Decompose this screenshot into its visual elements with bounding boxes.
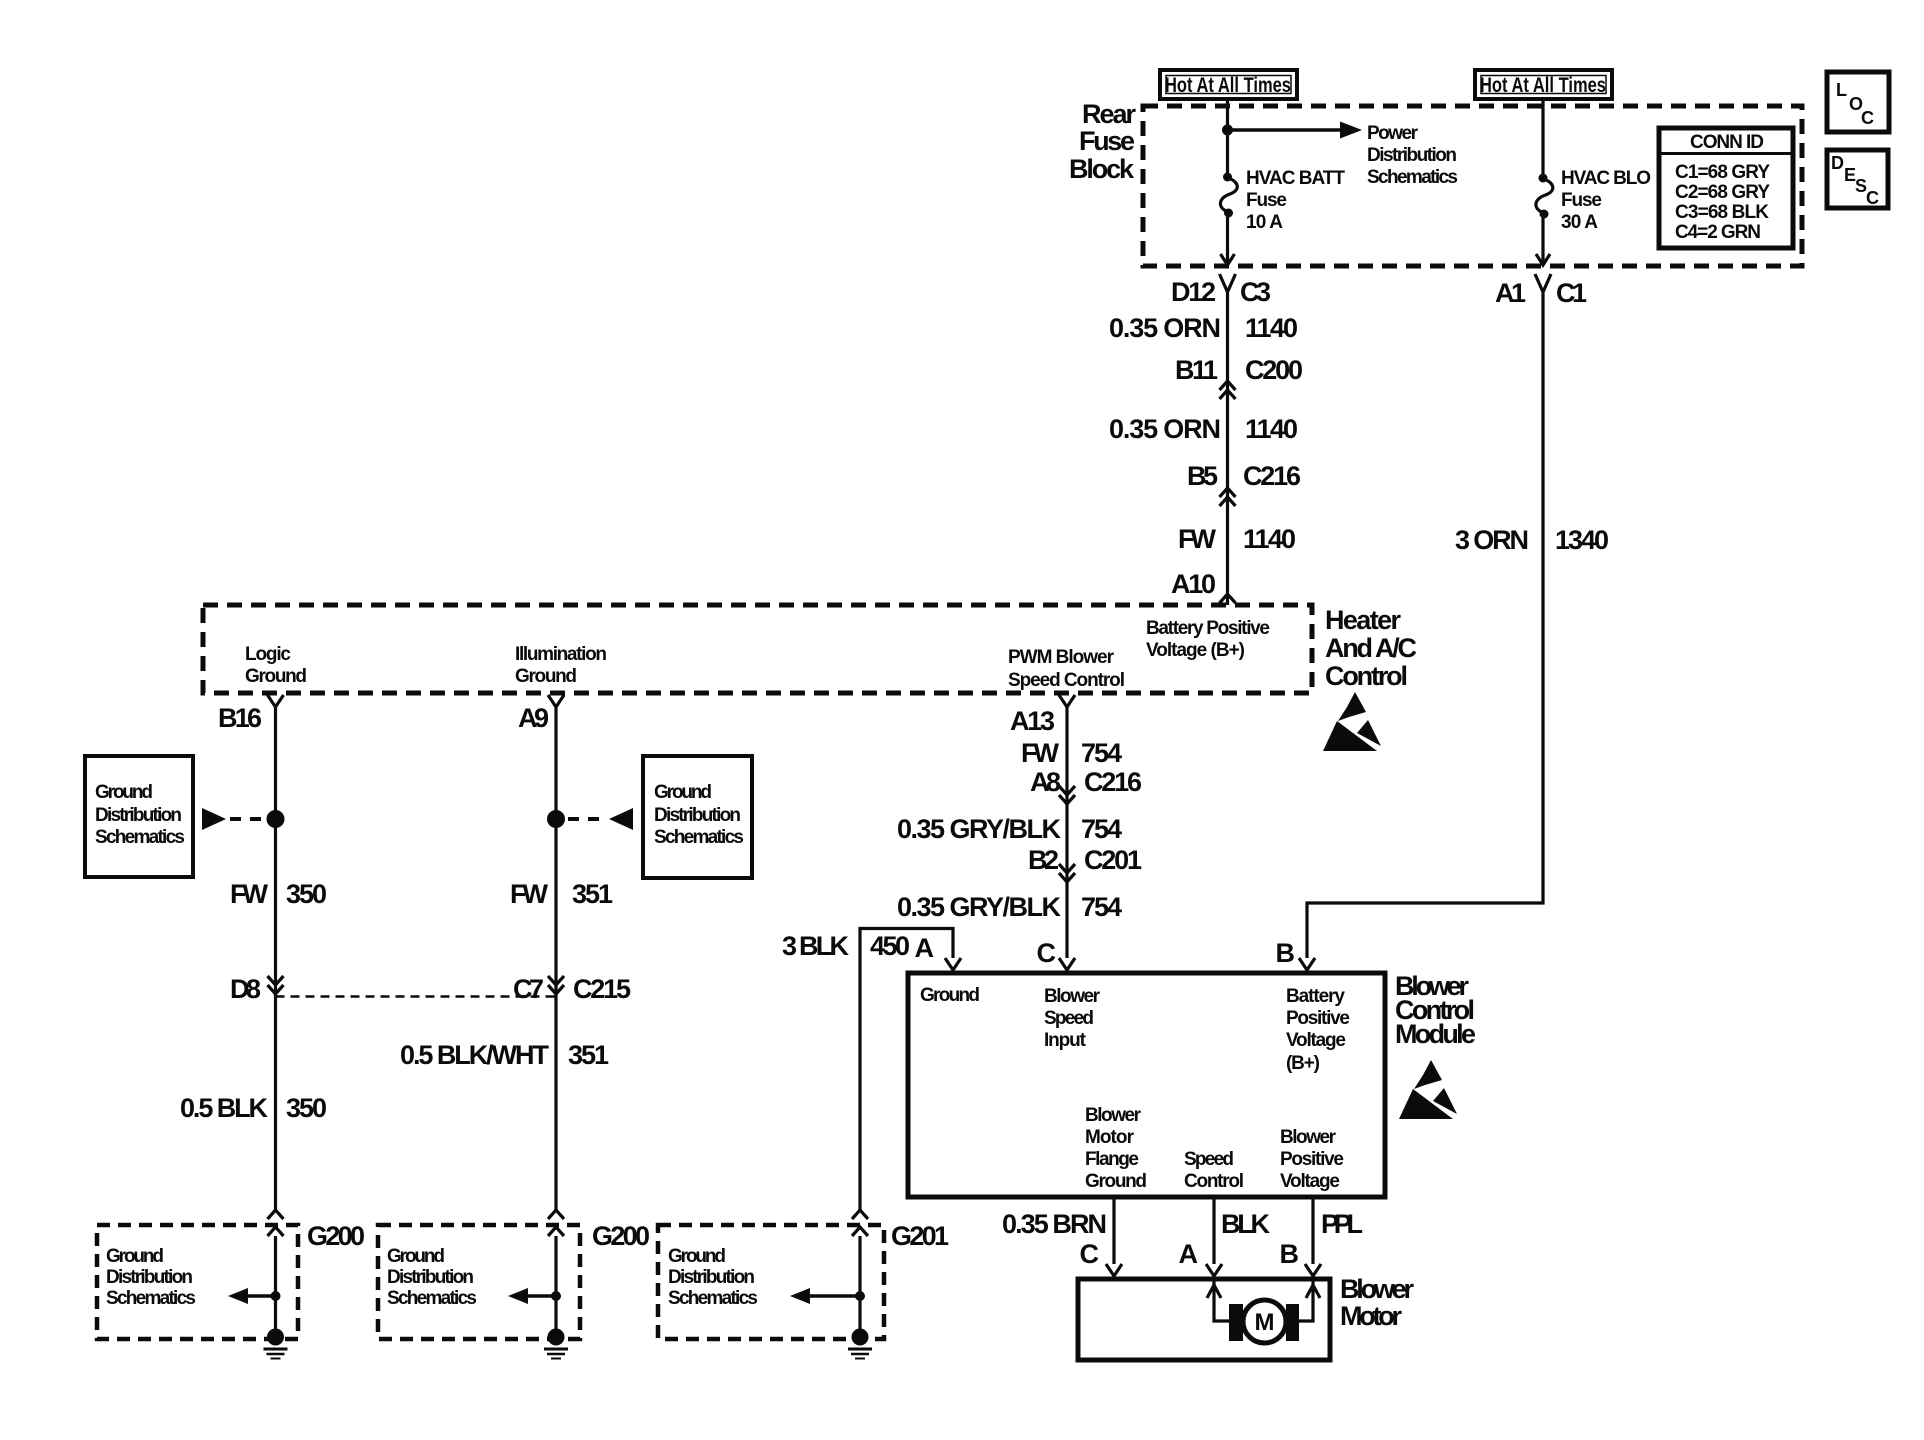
labels: D12 / C3 (1171, 277, 1271, 307)
svg-text:And A/C: And A/C (1325, 633, 1417, 663)
svg-text:450: 450 (870, 931, 910, 961)
svg-text:A1: A1 (1495, 278, 1526, 308)
label: 3 BLK | 450 (782, 931, 910, 961)
svg-text:FW: FW (510, 879, 549, 909)
label: Battery Positive Voltage (B+) (1286, 986, 1350, 1074)
labels: A1 / C1 (1495, 278, 1587, 308)
svg-text:Ground: Ground (387, 1246, 445, 1267)
svg-text:BLK: BLK (1221, 1209, 1271, 1239)
svg-text:Speed: Speed (1044, 1008, 1094, 1029)
svg-text:C1=68 GRY: C1=68 GRY (1675, 162, 1770, 183)
label: 0.5 BLK/WHT | 351 (400, 1040, 609, 1070)
svg-text:3 BLK: 3 BLK (782, 931, 850, 961)
svg-text:Battery: Battery (1286, 986, 1345, 1007)
svg-text:(B+): (B+) (1286, 1053, 1320, 1074)
svg-text:Ground: Ground (920, 985, 980, 1006)
label: Battery Positive Voltage (B+) (1146, 618, 1270, 661)
svg-text:Battery Positive: Battery Positive (1146, 618, 1270, 639)
svg-text:350: 350 (286, 879, 327, 909)
arrow to ground distribution schematics (box 1) (228, 1288, 274, 1304)
label: 0.35 BRN / C (1002, 1209, 1107, 1269)
ground symbol G201 (848, 1329, 872, 1359)
junction dot on A9 wire (547, 810, 565, 828)
connector A10 chevron (1220, 594, 1236, 603)
svg-text:Schematics: Schematics (95, 827, 185, 848)
svg-text:Distribution: Distribution (95, 805, 182, 826)
dashed connector line C215 (276, 995, 557, 998)
svg-text:M: M (1255, 1309, 1275, 1336)
svg-text:0.35 ORN: 0.35 ORN (1109, 313, 1221, 343)
svg-text:Positive: Positive (1286, 1008, 1350, 1029)
wire into ground G200 (274, 1236, 277, 1331)
svg-text:B11: B11 (1175, 355, 1218, 385)
svg-text:C201: C201 (1084, 845, 1142, 875)
svg-text:Ground: Ground (654, 782, 712, 803)
connector B Y symbol at motor (1305, 1264, 1321, 1279)
svg-text:G201: G201 (891, 1221, 949, 1251)
ESD symbol (heater control) (1323, 692, 1381, 751)
label: Blower Control Module (1395, 971, 1476, 1049)
motor M1 symbol (1229, 1300, 1299, 1343)
connector G200 chevrons (middle) (548, 1210, 564, 1236)
labels: B2 | C201 (1028, 845, 1142, 875)
arrow up (A) (1207, 1285, 1221, 1298)
ground distribution schematics dashed box 3 (658, 1225, 884, 1339)
DESC box (1827, 150, 1888, 208)
svg-text:Motor: Motor (1340, 1301, 1402, 1331)
wire into ground G200 (middle) (554, 1236, 557, 1331)
labels: B11 | C200 (1175, 355, 1303, 385)
LOC box (1827, 72, 1889, 132)
arrow to ground distribution schematics (box 2) (508, 1288, 554, 1304)
CONN ID table (1659, 128, 1793, 248)
svg-text:3 ORN: 3 ORN (1455, 525, 1529, 555)
svg-text:Ground: Ground (95, 782, 153, 803)
svg-text:351: 351 (572, 879, 613, 909)
heater and A/C control dashed box (203, 605, 1312, 693)
svg-text:Ground: Ground (668, 1246, 726, 1267)
svg-text:0.35 BRN: 0.35 BRN (1002, 1209, 1107, 1239)
fuse F1 HVAC BATT 10A (1220, 173, 1237, 218)
svg-text:Fuse: Fuse (1561, 190, 1602, 211)
arrowhead at block edge (C1) (1536, 254, 1550, 265)
ground distribution schematics box (left solid) (85, 756, 193, 877)
dashed arrow link to ground distribution schematics (middle) (568, 808, 633, 830)
svg-text:B5: B5 (1187, 461, 1218, 491)
svg-text:Ground: Ground (1085, 1171, 1147, 1192)
svg-text:Blower: Blower (1085, 1105, 1142, 1126)
label: Illumination Ground (515, 644, 607, 687)
junction dot at ground arrow (G201) (855, 1291, 865, 1301)
label: Blower Positive Voltage (1280, 1127, 1344, 1192)
svg-text:Schematics: Schematics (654, 827, 744, 848)
wire: illumination ground 351 (554, 707, 557, 1212)
svg-text:Hot At All Times: Hot At All Times (1480, 74, 1606, 97)
svg-text:G200: G200 (307, 1221, 365, 1251)
wire: battery feed into fuse block (1226, 99, 1229, 175)
svg-text:A: A (915, 933, 935, 963)
svg-text:0.35 ORN: 0.35 ORN (1109, 414, 1221, 444)
junction dot at ground arrow (271, 1291, 281, 1301)
junction dot (1222, 125, 1233, 136)
label: 3 ORN | 1340 (1455, 525, 1609, 555)
svg-text:A10: A10 (1171, 569, 1216, 599)
svg-text:L: L (1836, 80, 1847, 100)
svg-text:Fuse: Fuse (1079, 126, 1135, 156)
connector A8 double chevron (down) (1059, 786, 1075, 804)
svg-text:C215: C215 (573, 974, 631, 1004)
wire: 3 BLK 450 to module pin A (860, 929, 953, 1213)
svg-text:Schematics: Schematics (106, 1288, 196, 1309)
ground distribution schematics dashed box 1 (97, 1225, 298, 1339)
svg-text:754: 754 (1081, 738, 1122, 768)
hot at all times box 2 (1475, 70, 1612, 99)
label: 0.35 ORN | 1140 (1109, 313, 1298, 343)
svg-text:C216: C216 (1084, 767, 1142, 797)
label: Blower Speed Input (1044, 986, 1101, 1051)
svg-text:HVAC BLO: HVAC BLO (1561, 168, 1651, 189)
connector B16 Y symbol (268, 695, 284, 707)
fuse F2 HVAC BLO 30A (1536, 174, 1553, 219)
label: HVAC BLO Fuse 30 A (1561, 168, 1651, 233)
svg-text:1340: 1340 (1555, 525, 1609, 555)
dashed arrow link from ground distribution schematics (202, 808, 266, 830)
wire: module pin A to blower motor (1212, 1197, 1215, 1264)
svg-text:D: D (1831, 153, 1844, 173)
connector G200 chevrons at dashed box edge (268, 1210, 284, 1236)
svg-text:Fuse: Fuse (1246, 190, 1287, 211)
svg-text:10 A: 10 A (1246, 212, 1283, 233)
svg-text:Hot At All Times: Hot At All Times (1165, 74, 1291, 97)
svg-text:1140: 1140 (1243, 524, 1296, 554)
wire: module pin C to blower motor (1112, 1197, 1115, 1264)
svg-text:Control: Control (1184, 1171, 1244, 1192)
svg-text:754: 754 (1081, 892, 1122, 922)
connector G201 chevrons (852, 1210, 868, 1236)
svg-text:FW: FW (230, 879, 269, 909)
blower motor box (1078, 1279, 1330, 1360)
connector C7 double chevron (down) (548, 976, 564, 994)
ground symbol G200 (left) (264, 1329, 288, 1359)
wire: logic ground 350 (274, 707, 277, 1212)
svg-text:0.35 GRY/BLK: 0.35 GRY/BLK (897, 892, 1062, 922)
svg-text:Logic: Logic (245, 644, 291, 665)
wire: motor brush A (1214, 1281, 1229, 1321)
svg-text:PPL: PPL (1321, 1209, 1363, 1239)
connector A Y symbol at module (945, 958, 961, 973)
svg-text:Distribution: Distribution (654, 805, 741, 826)
svg-text:Module: Module (1395, 1019, 1476, 1049)
labels: B5 | C216 (1187, 461, 1301, 491)
svg-text:Power: Power (1367, 123, 1419, 144)
label: Blower Motor (1340, 1274, 1414, 1331)
label: FW | 754 (1021, 738, 1122, 768)
svg-text:C200: C200 (1245, 355, 1303, 385)
svg-text:Input: Input (1044, 1030, 1087, 1051)
svg-text:C: C (1080, 1239, 1100, 1269)
svg-text:Schematics: Schematics (1367, 167, 1458, 188)
blower control module box (908, 973, 1385, 1197)
svg-text:Blower: Blower (1340, 1274, 1414, 1304)
wire: motor brush B (1299, 1281, 1313, 1321)
svg-text:Voltage: Voltage (1280, 1171, 1340, 1192)
svg-text:Schematics: Schematics (387, 1288, 477, 1309)
svg-text:0.5 BLK: 0.5 BLK (180, 1093, 269, 1123)
svg-text:Voltage (B+): Voltage (B+) (1146, 640, 1245, 661)
junction dot on B16 wire (267, 810, 285, 828)
svg-text:351: 351 (568, 1040, 609, 1070)
wire: 0.35 ORN 1140 run to heater box (1226, 300, 1229, 605)
svg-text:B: B (1280, 1239, 1300, 1269)
label: 0.35 ORN | 1140 (2) (1109, 414, 1298, 444)
svg-text:Ground: Ground (106, 1246, 164, 1267)
svg-text:0.35 GRY/BLK: 0.35 GRY/BLK (897, 814, 1062, 844)
label: Heater And A/C Control (1325, 605, 1417, 691)
label: FW | 1140 (1178, 524, 1296, 554)
svg-text:D8: D8 (230, 974, 261, 1004)
svg-text:350: 350 (286, 1093, 327, 1123)
svg-text:Control: Control (1325, 661, 1408, 691)
label: Speed Control (1184, 1149, 1244, 1192)
ground symbol G200 (middle) (544, 1329, 568, 1359)
svg-text:G200: G200 (592, 1221, 650, 1251)
svg-text:Distribution: Distribution (1367, 145, 1457, 166)
svg-text:1140: 1140 (1245, 414, 1298, 444)
label: 0.35 GRY/BLK | 754 (2) (897, 892, 1122, 922)
svg-text:Distribution: Distribution (106, 1267, 193, 1288)
arrowhead at block edge (C3) (1221, 254, 1235, 265)
connector B2 double chevron (down) (1059, 864, 1075, 882)
connector A9 Y symbol (548, 695, 564, 707)
svg-text:Rear: Rear (1082, 99, 1136, 129)
ground distribution schematics dashed box 2 (378, 1225, 580, 1339)
connector D8 double chevron (down) (268, 976, 284, 994)
connector C Y symbol at motor (1106, 1264, 1122, 1279)
ESD symbol (blower control module) (1399, 1060, 1457, 1119)
connector A Y symbol at motor (1206, 1264, 1222, 1279)
connector C3 Y symbol (1220, 274, 1236, 300)
svg-text:Voltage: Voltage (1286, 1030, 1346, 1051)
svg-text:Flange: Flange (1085, 1149, 1139, 1170)
svg-text:B16: B16 (218, 703, 262, 733)
label: Power Distribution Schematics (1367, 123, 1458, 188)
labels: C7 | C215 (513, 974, 631, 1004)
label: Rear Fuse Block (1069, 99, 1136, 184)
connector A13 Y symbol (1059, 695, 1075, 707)
svg-text:Motor: Motor (1085, 1127, 1135, 1148)
label: Blower Motor Flange Ground (1085, 1105, 1147, 1192)
svg-text:0.5 BLK/WHT: 0.5 BLK/WHT (400, 1040, 550, 1070)
svg-text:HVAC BATT: HVAC BATT (1246, 168, 1345, 189)
label: PPL / B (1280, 1209, 1364, 1269)
label: FW | 351 (510, 879, 613, 909)
svg-text:C3: C3 (1240, 277, 1271, 307)
labels: A8 | C216 (1030, 767, 1142, 797)
svg-text:Blower: Blower (1044, 986, 1101, 1007)
label: 0.5 BLK | 350 (180, 1093, 327, 1123)
connector B Y symbol at module (1299, 958, 1315, 973)
svg-text:C: C (1037, 938, 1057, 968)
svg-text:A13: A13 (1010, 706, 1055, 736)
connector C200 double chevron (1220, 381, 1236, 399)
wire: 3 ORN 1340 down and over to blower control module pin B (1307, 300, 1543, 958)
svg-text:Blower: Blower (1280, 1127, 1337, 1148)
svg-text:Block: Block (1069, 154, 1135, 184)
wire: PWM speed control 754 (1065, 707, 1068, 958)
svg-text:Distribution: Distribution (387, 1267, 474, 1288)
wire: from hot box 2 to fuse F2 (1541, 99, 1544, 176)
wire: module pin B to blower motor (1311, 1197, 1314, 1264)
svg-text:Schematics: Schematics (668, 1288, 758, 1309)
svg-text:Illumination: Illumination (515, 644, 607, 665)
svg-text:C3=68 BLK: C3=68 BLK (1675, 202, 1769, 223)
label: Logic Ground (245, 644, 307, 687)
connector C216 double chevron (1220, 488, 1236, 506)
junction dot at ground arrow (middle) (551, 1291, 561, 1301)
arrow to ground distribution schematics (box 3) (790, 1288, 858, 1304)
wire below fuse F1 (1226, 217, 1229, 264)
arrow to power distribution schematics (1230, 122, 1362, 139)
svg-text:Positive: Positive (1280, 1149, 1344, 1170)
svg-text:754: 754 (1081, 814, 1122, 844)
svg-text:Speed: Speed (1184, 1149, 1234, 1170)
svg-text:A: A (1179, 1239, 1199, 1269)
svg-text:C: C (1861, 108, 1874, 128)
svg-text:CONN ID: CONN ID (1690, 132, 1764, 153)
connector C Y symbol at module (1059, 958, 1075, 973)
label: BLK / A (1179, 1209, 1271, 1269)
hot at all times box 1 (1160, 70, 1297, 99)
svg-text:C216: C216 (1243, 461, 1301, 491)
arrow up (B) (1306, 1285, 1320, 1298)
svg-text:Ground: Ground (515, 666, 577, 687)
ground distribution schematics box (middle solid) (643, 756, 752, 878)
label: FW | 350 (230, 879, 327, 909)
svg-text:FW: FW (1178, 524, 1217, 554)
svg-text:Ground: Ground (245, 666, 307, 687)
svg-text:B: B (1276, 938, 1296, 968)
label: HVAC BATT Fuse 10 A (1246, 168, 1345, 233)
svg-text:A9: A9 (518, 703, 549, 733)
svg-text:C4=2 GRN: C4=2 GRN (1675, 222, 1761, 243)
svg-text:FW: FW (1021, 738, 1060, 768)
label: 0.35 GRY/BLK | 754 (897, 814, 1122, 844)
svg-text:Heater: Heater (1325, 605, 1401, 635)
svg-text:1140: 1140 (1245, 313, 1298, 343)
svg-text:C1: C1 (1556, 278, 1587, 308)
svg-text:D12: D12 (1171, 277, 1216, 307)
svg-text:C7: C7 (513, 974, 544, 1004)
label: PWM Blower Speed Control (1008, 647, 1125, 691)
wire below fuse F2 (1541, 218, 1544, 264)
rear fuse block dashed box (1143, 106, 1802, 266)
svg-text:PWM Blower: PWM Blower (1008, 647, 1115, 668)
svg-text:A8: A8 (1030, 767, 1061, 797)
wire into ground G201 (858, 1236, 861, 1331)
svg-text:B2: B2 (1028, 845, 1059, 875)
svg-text:Distribution: Distribution (668, 1267, 755, 1288)
svg-text:Speed Control: Speed Control (1008, 670, 1125, 691)
svg-text:C: C (1866, 188, 1879, 208)
svg-text:C2=68 GRY: C2=68 GRY (1675, 182, 1770, 203)
connector C1 Y symbol (1535, 274, 1551, 300)
svg-text:30 A: 30 A (1561, 212, 1598, 233)
